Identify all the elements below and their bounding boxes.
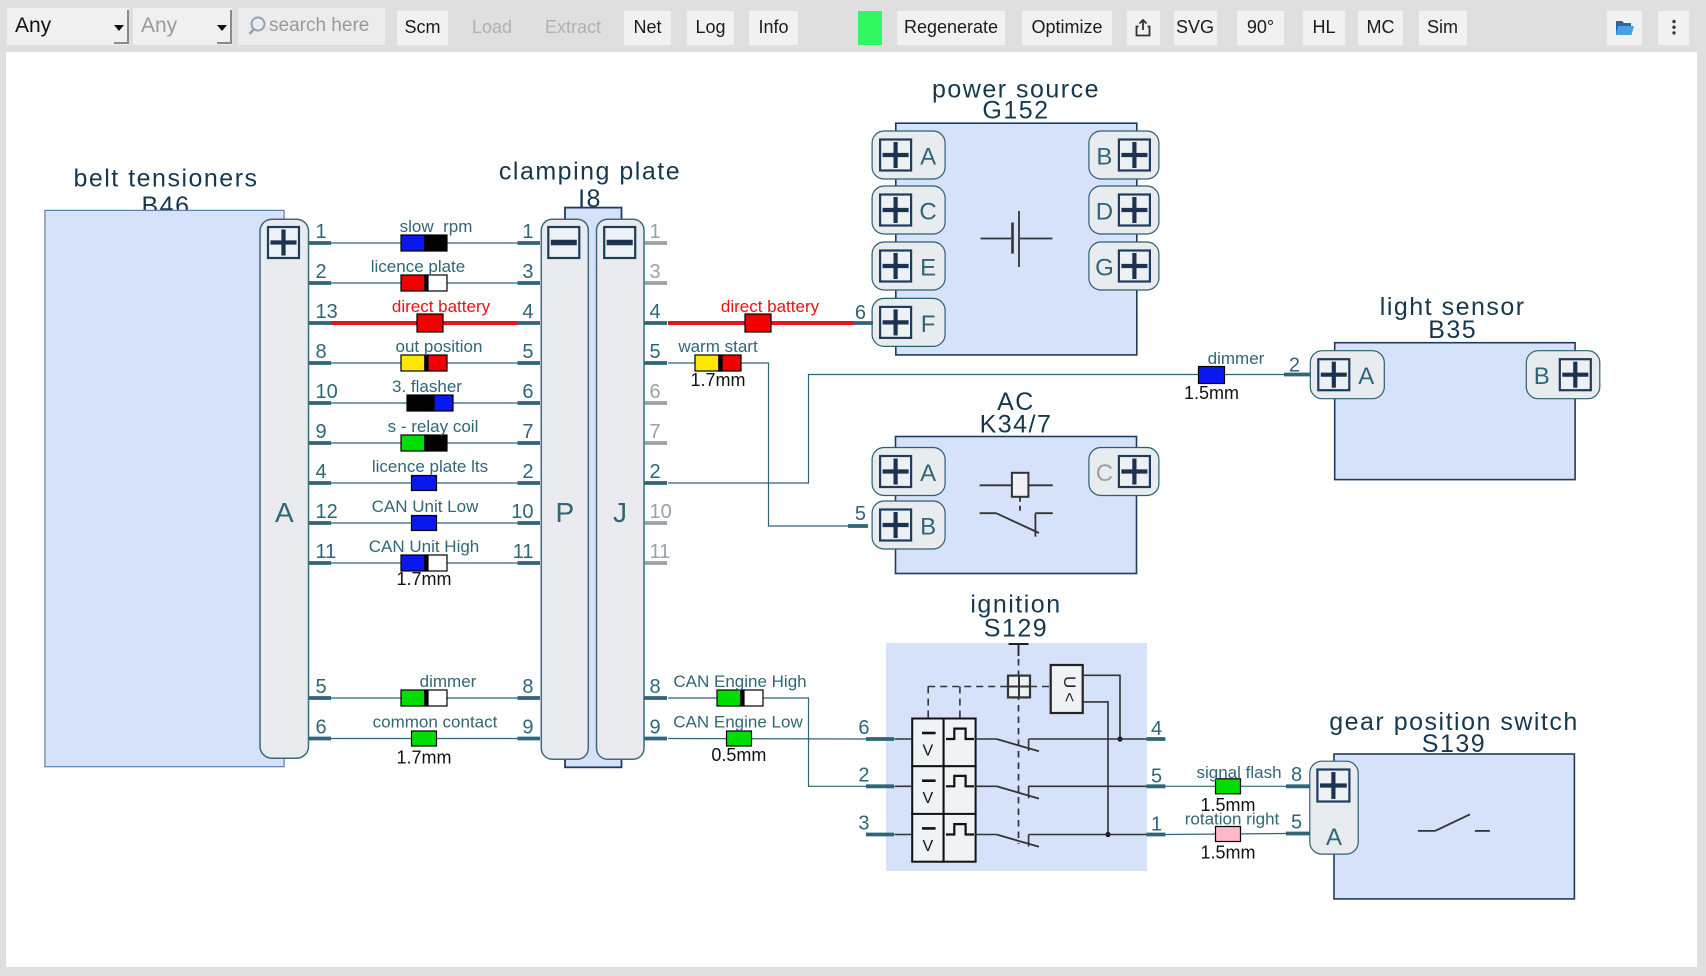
terminal A of B35	[1310, 351, 1384, 399]
svg-text:1: 1	[522, 221, 533, 243]
wire marker CAN Engine High	[717, 690, 741, 706]
svg-text:rotation right: rotation right	[1185, 810, 1280, 829]
pin 4 of S129 (right)	[1146, 737, 1165, 741]
wire CAN Engine Low (I8 J9 to S129 pin6)	[668, 738, 866, 741]
wire marker rotation right	[1216, 827, 1241, 842]
svg-text:2: 2	[650, 461, 661, 483]
ignition key symbol top connector	[1009, 643, 1029, 645]
wire marker warm start	[695, 355, 719, 371]
wire marker s - relay coil	[401, 435, 425, 451]
svg-text:9: 9	[650, 717, 661, 739]
pin 8 of S139-A	[1286, 784, 1310, 788]
terminal D of G152	[1089, 186, 1159, 234]
component power source G152 (body)	[896, 123, 1137, 355]
svg-text:B: B	[1096, 144, 1112, 171]
terminal E of G152	[872, 242, 945, 290]
svg-text:3: 3	[650, 261, 661, 283]
clamping plate body (blue tab)	[565, 208, 622, 768]
terminal A of G152	[872, 131, 945, 179]
pin 3 of I8-P	[518, 281, 541, 285]
pin 13 of B46-A	[309, 321, 332, 325]
svg-text:2: 2	[522, 461, 533, 483]
svg-text:CAN Unit Low: CAN Unit Low	[372, 497, 479, 516]
pin 6 of I8-P	[518, 401, 541, 405]
wire common contact (B46 to I8)	[331, 738, 518, 740]
svg-text:7: 7	[650, 421, 661, 443]
svg-text:3: 3	[858, 813, 869, 835]
svg-text:signal flash: signal flash	[1196, 763, 1281, 782]
junction dot row3	[1105, 832, 1110, 837]
wire warm start (I8 J5 to K34/7 B5)	[668, 363, 848, 526]
svg-text:8: 8	[316, 341, 327, 363]
pin 1 of S129 (right)	[1146, 833, 1165, 837]
svg-text:2: 2	[1289, 355, 1300, 377]
svg-text:G: G	[1095, 255, 1114, 282]
relay switch contact inside K34/7	[980, 512, 997, 514]
pin 7 of I8-J	[645, 441, 668, 445]
svg-text:C: C	[1096, 460, 1113, 487]
svg-text:10: 10	[650, 501, 672, 523]
pin 10 of B46-A	[309, 401, 332, 405]
toolbar button 90 degrees	[1237, 11, 1284, 45]
wire licence plate (B46 to I8)	[331, 282, 518, 284]
svg-text:B: B	[1534, 363, 1550, 390]
pin 2 of I8-P	[518, 481, 541, 485]
pin 6 of G152-F	[854, 321, 873, 325]
pin 3 of I8-J	[645, 281, 668, 285]
filter select 2	[133, 8, 232, 45]
wire marker slow&#160;&#160;rpm	[401, 235, 425, 251]
svg-text:licence plate lts: licence plate lts	[372, 457, 488, 476]
pin 11 of I8-J	[645, 561, 668, 565]
junction dot row1	[1117, 736, 1122, 741]
pin 5 of I8-P	[518, 361, 541, 365]
pin 10 of I8-J	[645, 521, 668, 525]
pin 2 of I8-J	[645, 481, 668, 485]
share/export icon button	[1127, 11, 1160, 45]
wire marker dimmer	[401, 690, 425, 706]
svg-text:U<: U<	[1060, 676, 1079, 706]
svg-text:warm start: warm start	[677, 337, 758, 356]
svg-text:8: 8	[1291, 764, 1302, 786]
pin 6 of I8-J	[645, 401, 668, 405]
status green square	[858, 11, 882, 45]
wire from left pins into contact units	[895, 738, 913, 740]
svg-text:9: 9	[316, 421, 327, 443]
pin 8 of B46-A	[309, 361, 332, 365]
pin 4 of B46-A	[309, 481, 332, 485]
svg-text:5: 5	[1291, 812, 1302, 834]
wire dimmer (I8 J2 to B35 A2)	[668, 375, 1284, 484]
wire slow&#160;&#160;rpm (B46 to I8)	[331, 242, 518, 244]
wire marker licence plate lts	[412, 476, 437, 491]
ignition contact unit pulse-box row3	[944, 814, 976, 862]
ignition cross-box symbol	[1008, 676, 1030, 698]
terminal B of K34/7	[872, 501, 945, 549]
pin 10 of I8-P	[518, 521, 541, 525]
svg-text:6: 6	[855, 302, 866, 324]
svg-text:1: 1	[1151, 814, 1162, 836]
svg-text:s - relay coil: s - relay coil	[388, 417, 479, 436]
svg-text:6: 6	[650, 381, 661, 403]
wire dimmer (B46 to I8)	[331, 697, 518, 699]
svg-text:B: B	[920, 514, 936, 541]
svg-text:A: A	[275, 497, 294, 528]
svg-text:direct battery: direct battery	[721, 297, 820, 316]
pin 5 of S129 (right)	[1146, 784, 1165, 788]
wire direct battery (B46 A13 to I8 P4), red	[331, 321, 518, 325]
battery symbol inside G152	[981, 238, 1012, 240]
terminal C of K34/7 (unconnected)	[1089, 448, 1159, 496]
toolbar button Load (disabled)	[466, 11, 518, 45]
svg-text:clamping plate: clamping plate	[499, 158, 681, 186]
svg-text:0.5mm: 0.5mm	[711, 745, 766, 765]
component AC K34/7 (body)	[896, 437, 1137, 574]
terminal G of G152	[1089, 242, 1159, 290]
svg-text:1.5mm: 1.5mm	[1200, 843, 1255, 863]
collapse button (-) on connector J	[604, 227, 635, 258]
terminal F of G152	[872, 298, 945, 346]
svg-text:2: 2	[316, 261, 327, 283]
pin 6 of S129 (left)	[866, 737, 894, 741]
svg-text:A: A	[920, 460, 936, 487]
svg-text:common contact: common contact	[373, 713, 498, 732]
wire CAN Unit Low (B46 to I8)	[331, 522, 518, 524]
svg-text:CAN Unit High: CAN Unit High	[369, 537, 480, 556]
svg-text:5: 5	[650, 341, 661, 363]
svg-text:A: A	[1358, 363, 1374, 390]
svg-text:7: 7	[522, 421, 533, 443]
svg-text:5: 5	[316, 676, 327, 698]
svg-text:E: E	[920, 255, 936, 282]
svg-text:direct battery: direct battery	[392, 297, 491, 316]
switch symbol inside S139	[1418, 830, 1435, 832]
wires from U< box	[1083, 675, 1120, 739]
wire CAN Engine High (I8 J8 to S129 pin2)	[668, 698, 866, 786]
wire marker CAN Engine Low	[727, 731, 752, 746]
wire marker CAN Unit Low	[412, 516, 437, 531]
svg-text:P: P	[555, 497, 574, 528]
pin 4 of I8-J	[645, 321, 668, 325]
toolbar button Log	[687, 11, 734, 45]
svg-text:CAN Engine Low: CAN Engine Low	[673, 713, 803, 732]
toolbar button Sim	[1419, 11, 1467, 45]
pin 12 of B46-A	[309, 521, 332, 525]
connector bar P of I8	[541, 219, 588, 759]
undervoltage unit U< box	[1051, 665, 1083, 713]
component belt tensioners B46 (body)	[45, 210, 284, 766]
toolbar button Scm	[397, 11, 448, 45]
terminal A of K34/7	[872, 448, 945, 496]
toolbar button Regenerate	[897, 11, 1005, 45]
wire marker direct battery right	[745, 314, 771, 332]
svg-text:belt tensioners: belt tensioners	[73, 165, 258, 193]
svg-text:4: 4	[1151, 718, 1162, 740]
svg-text:G152: G152	[982, 97, 1049, 125]
pin 5 of B46-A	[309, 696, 332, 700]
pin 5 of S139-A	[1286, 832, 1310, 836]
terminal C of G152	[872, 186, 945, 234]
wire CAN Unit High (B46 to I8)	[331, 562, 518, 564]
svg-text:4: 4	[650, 301, 661, 323]
pin 9 of I8-P	[518, 737, 541, 741]
pin 1 of B46-A	[309, 241, 332, 245]
svg-text:10: 10	[316, 381, 338, 403]
relay coil symbol inside K34/7	[980, 484, 1012, 486]
toolbar button Net	[624, 11, 671, 45]
svg-text:A: A	[1326, 824, 1342, 851]
toolbar	[0, 0, 1706, 52]
pin 2 of B46-A	[309, 281, 332, 285]
svg-text:C: C	[919, 199, 936, 226]
svg-text:6: 6	[522, 381, 533, 403]
wire marker dimmer	[1199, 367, 1225, 384]
svg-text:9: 9	[522, 717, 533, 739]
ignition switch contact row2	[976, 785, 997, 787]
pin 11 of I8-P	[518, 561, 541, 565]
pin 2 of B35-A	[1284, 373, 1310, 377]
toolbar button HL	[1303, 11, 1345, 45]
wire licence plate lts (B46 to I8)	[331, 482, 518, 484]
svg-text:dimmer: dimmer	[420, 672, 477, 691]
svg-text:6: 6	[316, 717, 327, 739]
svg-text:A: A	[920, 144, 936, 171]
svg-text:1: 1	[650, 221, 661, 243]
pin 4 of I8-P	[518, 321, 541, 325]
ignition dashed actuator line	[1018, 659, 1020, 844]
terminal B of G152	[1089, 131, 1159, 179]
wire 3. flasher (B46 to I8)	[331, 402, 518, 404]
pin 3 of S129 (left)	[866, 833, 894, 837]
svg-text:K34/7: K34/7	[980, 411, 1053, 439]
svg-text:S129: S129	[984, 615, 1048, 643]
wire rotation right (S129 pin1 to S139 pin5)	[1165, 834, 1286, 835]
svg-text:5: 5	[1151, 765, 1162, 787]
svg-text:1.5mm: 1.5mm	[1184, 383, 1239, 403]
ignition dashed links to contact units	[928, 686, 1008, 688]
pin 11 of B46-A	[309, 561, 332, 565]
toolbar button Optimize	[1022, 11, 1112, 45]
ignition switch contact row3	[976, 834, 997, 836]
wire marker common contact	[412, 731, 437, 746]
svg-text:3. flasher: 3. flasher	[392, 377, 462, 396]
connector bar A of B46	[260, 219, 309, 758]
pin 2 of S129 (left)	[866, 784, 894, 788]
svg-text:dimmer: dimmer	[1208, 349, 1265, 368]
terminal B of B35	[1526, 351, 1600, 399]
wire s - relay coil (B46 to I8)	[331, 442, 518, 444]
toolbar button SVG	[1174, 11, 1217, 45]
svg-text:13: 13	[316, 301, 338, 323]
svg-text:8: 8	[650, 676, 661, 698]
expand button (+) on connector A	[268, 227, 299, 258]
wire marker licence plate	[401, 275, 425, 291]
pin 9 of I8-J	[645, 737, 668, 741]
wire marker 3. flasher	[407, 395, 431, 411]
folder icon button	[1607, 11, 1642, 45]
svg-text:V: V	[922, 743, 933, 760]
svg-text:11: 11	[316, 541, 337, 563]
ignition switch contact row1	[976, 738, 997, 740]
svg-text:12: 12	[316, 501, 338, 523]
pin 9 of B46-A	[309, 441, 332, 445]
svg-text:F: F	[921, 311, 936, 338]
pin 1 of I8-J	[645, 241, 668, 245]
ignition contact unit V-box row1	[912, 719, 943, 767]
ignition contact unit pulse-box row2	[944, 766, 976, 814]
wire marker signal flash	[1216, 779, 1241, 794]
svg-text:4: 4	[522, 301, 533, 323]
pin 8 of I8-P	[518, 696, 541, 700]
svg-text:3: 3	[522, 261, 533, 283]
pin 7 of I8-P	[518, 441, 541, 445]
svg-text:2: 2	[858, 764, 869, 786]
svg-text:out position: out position	[396, 337, 483, 356]
pin 5 of I8-J	[645, 361, 668, 365]
svg-text:B35: B35	[1428, 316, 1477, 344]
svg-text:V: V	[922, 838, 933, 855]
ignition contact unit V-box row3	[912, 814, 943, 862]
filter select 1	[7, 8, 129, 45]
component ignition S129 (body)	[886, 643, 1147, 871]
toolbar button Extract (disabled)	[540, 11, 606, 45]
svg-text:V: V	[922, 790, 933, 807]
terminal A of S139 (vertical)	[1310, 761, 1358, 854]
svg-text:1.7mm: 1.7mm	[396, 569, 451, 589]
component light sensor B35 (body)	[1335, 343, 1575, 480]
wire out position (B46 to I8)	[331, 362, 518, 364]
pin 6 of B46-A	[309, 737, 332, 741]
component gear position switch S139 (body)	[1334, 754, 1574, 899]
toolbar button Info	[749, 11, 798, 45]
kebab menu button	[1658, 11, 1689, 45]
svg-text:1: 1	[316, 221, 327, 243]
toolbar button MC	[1358, 11, 1403, 45]
wire marker out position	[401, 355, 425, 371]
ignition contact unit pulse-box row1	[944, 719, 976, 767]
ignition contact unit V-box row2	[912, 766, 943, 814]
svg-text:4: 4	[316, 461, 327, 483]
pin 8 of I8-J	[645, 696, 668, 700]
svg-text:CAN Engine High: CAN Engine High	[673, 672, 806, 691]
svg-text:D: D	[1096, 199, 1113, 226]
svg-text:6: 6	[858, 717, 869, 739]
svg-text:11: 11	[650, 541, 671, 563]
svg-text:10: 10	[511, 501, 533, 523]
pin 5 of K34/7-B	[848, 524, 868, 528]
pin 1 of I8-P	[518, 241, 541, 245]
wire direct battery (I8 J4 to G152 F6), red	[668, 321, 854, 325]
svg-text:J: J	[613, 497, 627, 528]
svg-text:5: 5	[522, 341, 533, 363]
svg-text:slow rpm: slow rpm	[400, 217, 473, 236]
wire marker CAN Unit High	[401, 555, 425, 571]
wire signal flash (S129 pin5 to S139 pin8)	[1165, 785, 1286, 787]
svg-text:11: 11	[513, 541, 534, 563]
wire marker direct battery	[417, 314, 443, 332]
svg-text:licence plate: licence plate	[371, 257, 466, 276]
search box	[238, 8, 385, 45]
svg-text:1.7mm: 1.7mm	[396, 748, 451, 768]
svg-text:5: 5	[855, 503, 866, 525]
svg-text:8: 8	[522, 676, 533, 698]
collapse button (-) on connector P	[548, 227, 579, 258]
svg-text:1.7mm: 1.7mm	[690, 370, 745, 390]
connector bar J of I8	[597, 219, 645, 759]
